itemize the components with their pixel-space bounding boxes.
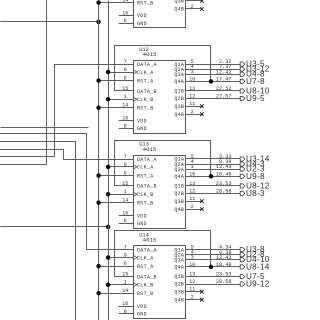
net flag U3-5 from Q1A of U12 [240,60,265,69]
svg-text:Q3B: Q3B [174,0,184,5]
no-connect X on pin 2 Q4B of U11 [200,7,204,11]
wire delay value 8.38 on Q2A of U13 [219,159,231,165]
pin 2 Q4B of U13 [174,204,201,213]
svg-text:RST_B: RST_B [137,200,154,206]
pin 1 CLK_B of U14 [109,280,154,289]
pin 15 DATA_B of U12 [115,86,157,95]
pin 16 VDD of U14 [119,301,147,310]
pin 16 VDD of U12 [119,116,147,125]
feedback wire Q4A to DATA_B of U14 [115,231,211,277]
net flag U7-8 from Q4A of U12 [240,77,265,86]
pin 7 DATA_A of U14 [124,245,157,254]
value label 4015 for U13 [143,146,157,153]
svg-text:CLK_B: CLK_B [137,283,154,289]
pin 16 VDD of U11 [119,10,147,19]
net flag U8-3 from Q2B of U13 [240,189,265,198]
wire delay value 27.57 on Q2B of U12 [216,94,232,100]
pin 1 CLK_B of U12 [109,94,154,103]
net flag U4-3 from Q2A of U13 [240,160,265,169]
svg-text:Q3B: Q3B [174,104,184,110]
svg-text:16: 16 [122,116,128,122]
svg-text:16: 16 [122,10,128,16]
svg-text:6: 6 [124,76,127,82]
svg-text:Q3B: Q3B [174,289,184,295]
wire delay value 2.32 on Q1A of U12 [219,59,231,65]
svg-text:RST_A: RST_A [137,264,154,270]
net flag U2-8 from Q2A of U14 [240,250,265,259]
svg-text:U9-8: U9-8 [246,172,265,181]
wire delay value 3.33 on Q1A of U13 [219,154,231,160]
svg-text:GND: GND [137,21,147,27]
svg-text:VDD: VDD [137,118,147,124]
net flag U8-14 from Q4A of U14 [240,262,270,271]
svg-text:CLK_A: CLK_A [137,255,154,261]
svg-text:14: 14 [122,198,128,204]
pin 13 Q1B of U13 [174,181,240,190]
svg-text:DATA_A: DATA_A [137,157,157,163]
junction RST_B of U14 on RST bus [96,291,101,296]
op-amp-style IC body U12 4015 [134,61,186,134]
feedback wire Q4A to DATA_B of U13 [115,141,211,186]
svg-text:GND: GND [137,312,147,318]
svg-text:Q3A: Q3A [174,72,184,78]
svg-text:DATA_B: DATA_B [137,89,157,95]
svg-text:8: 8 [124,309,127,315]
svg-text:16: 16 [122,301,128,307]
svg-text:GND: GND [137,126,147,132]
no-connect X on pin 11 Q3B of U12 [200,104,204,108]
svg-text:GND: GND [137,221,147,227]
svg-text:12.42: 12.42 [216,69,232,75]
svg-text:RST_B: RST_B [137,106,154,112]
pin 15 DATA_B of U14 [115,271,157,280]
wire delay value 13.43 on Q3A of U13 [216,164,232,170]
svg-text:Q4B: Q4B [174,207,184,213]
junction feedback on Q4A of U13 [209,174,214,179]
svg-text:Q2B: Q2B [174,191,184,197]
value label 4015 for U14 [143,237,157,244]
svg-text:18.48: 18.48 [216,171,232,177]
pin 13 Q1B of U14 [174,272,240,281]
svg-text:U8-14: U8-14 [246,262,270,271]
pin 14 RST_B of U12 [99,103,154,112]
wire DATA_A feeder to U12 [0,65,134,157]
net flag U9-5 from Q2B of U12 [240,94,265,103]
wire delay value 9.39 on Q2A of U14 [219,250,231,256]
wire delay value 12.42 on Q3A of U12 [216,69,232,75]
svg-text:14: 14 [122,0,128,3]
svg-text:DATA_A: DATA_A [137,247,157,253]
svg-text:CLK_B: CLK_B [137,192,154,198]
wire delay value 18.48 on Q4A of U13 [216,171,232,177]
net flag U4-10 from Q3A of U14 [240,255,270,264]
svg-text:9: 9 [124,67,127,73]
svg-text:6: 6 [124,261,127,267]
svg-text:7: 7 [124,245,127,251]
svg-text:DATA_A: DATA_A [137,62,157,68]
GND stub wire from left edge [1,127,89,129]
junction CLK_B of U12 on CLK bus [106,97,111,102]
pin 4 Q2A of U12 [174,64,240,73]
net flag U8-12 from Q1B of U13 [240,181,270,190]
net flag U8-10 from Q1B of U12 [240,87,270,96]
junction RST_A of U14 on RST bus [96,264,101,269]
reference label U13 [139,142,149,148]
pin 3 Q3A of U12 [174,69,240,78]
pin 12 Q2B of U14 [174,279,240,288]
svg-text:RST_A: RST_A [137,78,154,84]
pin 5 Q1A of U14 [174,245,240,254]
svg-text:Q3A: Q3A [174,257,184,263]
svg-text:16: 16 [122,210,128,216]
wire delay value 28.58 on Q2B of U14 [216,279,232,285]
pin 8 GND of U14 [119,309,147,318]
svg-text:CLK_A: CLK_A [137,70,154,76]
pin 11 Q3B of U13 [174,196,201,205]
wire delay value 22.52 on Q1B of U12 [216,86,232,92]
svg-text:Q1B: Q1B [174,274,184,280]
pin 16 VDD of U13 [119,210,147,219]
svg-text:4015: 4015 [143,237,157,244]
svg-text:28.58: 28.58 [216,279,232,285]
junction RST_B of U13 on RST bus [96,200,101,205]
pin 9 CLK_A of U13 [109,162,154,171]
svg-text:13: 13 [189,86,195,92]
svg-text:Q4B: Q4B [174,112,184,118]
svg-text:27.57: 27.57 [216,94,232,100]
junction RST_B of U12 on RST bus [96,105,101,110]
pin 7 DATA_A of U12 [124,59,157,68]
wire delay value 17.47 on Q4A of U12 [216,77,232,83]
pin 8 GND of U12 [119,123,147,132]
junction RST source on RST bus [96,20,101,25]
wire DATA_A feeder to U15 below [0,142,76,320]
pin 14 RST_B of U14 [99,288,154,297]
wire delay value 23.53 on Q1B of U13 [216,181,232,187]
svg-text:13.43: 13.43 [216,255,232,261]
RST net source wire from left edge [1,21,99,23]
junction CLK_A of U14 on CLK bus [106,255,111,260]
net flag U2-3 from Q3A of U13 [240,165,265,174]
wire delay value 7.37 on Q2A of U12 [219,64,231,70]
svg-text:Q1B: Q1B [174,89,184,95]
svg-text:4015: 4015 [143,51,157,58]
svg-text:9: 9 [124,252,127,258]
svg-text:22.52: 22.52 [216,86,232,92]
svg-text:Q2B: Q2B [174,282,184,288]
svg-text:23.53: 23.53 [216,181,232,187]
svg-text:14: 14 [122,288,128,294]
net flag U7-5 from Q1B of U14 [240,272,265,281]
pin 4 Q2A of U14 [174,250,240,259]
svg-text:U7-8: U7-8 [246,77,265,86]
svg-text:U9-12: U9-12 [246,280,270,289]
svg-text:Q4A: Q4A [174,174,184,180]
pin 4 Q2A of U13 [174,159,240,168]
svg-text:6: 6 [124,170,127,176]
op-amp-style IC body U11 4015 [134,0,186,28]
no-connect X on pin 11 Q3B of U13 [200,199,204,203]
wire delay value 28.58 on Q2B of U13 [216,189,232,195]
pin 8 GND of U13 [119,218,147,227]
svg-text:4015: 4015 [143,146,157,153]
svg-text:VDD: VDD [137,304,147,310]
pin 6 RST_A of U14 [99,261,154,270]
no-connect X on pin 11 Q3B of U11 [200,0,204,3]
pin 12 Q2B of U13 [174,188,240,197]
svg-text:8: 8 [124,123,127,129]
pin 10 Q4A of U12 [174,76,240,85]
value label 4015 for U12 [143,51,157,58]
svg-text:Q4A: Q4A [174,79,184,85]
junction RST_A of U13 on RST bus [96,173,101,178]
pin 6 RST_A of U13 [99,170,154,179]
svg-text:23.53: 23.53 [216,272,232,278]
svg-text:Q2B: Q2B [174,96,184,102]
svg-text:2: 2 [191,4,194,10]
junction RST_A of U12 on RST bus [96,78,101,83]
wire delay value 18.48 on Q4A of U14 [216,262,232,268]
junction CLK_B of U13 on CLK bus [106,192,111,197]
svg-text:8: 8 [124,218,127,224]
pin 7 DATA_A of U13 [124,154,157,163]
no-connect X on pin 2 Q4B of U13 [200,207,204,211]
wire DATA_A feeder to U13 [0,150,134,160]
svg-text:18.48: 18.48 [216,262,232,268]
svg-text:VDD: VDD [137,213,147,219]
pin 5 Q1A of U12 [174,59,240,68]
pin 11 Q3B of U12 [174,101,201,110]
no-connect X on pin 2 Q4B of U14 [200,298,204,302]
svg-text:DATA_B: DATA_B [137,184,157,190]
net flag U9-12 from Q2B of U14 [240,280,270,289]
svg-text:9: 9 [124,162,127,168]
pin 13 Q1B of U12 [174,86,240,95]
CLK bus vertical wire [108,1,110,320]
svg-text:CLK_A: CLK_A [137,165,154,171]
svg-text:13.43: 13.43 [216,164,232,170]
wire delay value 13.43 on Q3A of U14 [216,255,232,261]
svg-text:1: 1 [124,94,127,100]
net flag U3-14 from Q1A of U13 [240,155,270,164]
feedback wire Q4A to DATA_B of U12 [115,46,211,91]
pin 2 Q4B of U14 [174,295,201,304]
wire from top edge down far left, exiting left edge [0,0,47,165]
net flag U9-8 from Q4A of U13 [240,172,265,181]
svg-text:U9-5: U9-5 [246,94,265,103]
pin 3 Q3A of U14 [174,255,240,264]
svg-text:RST_B: RST_B [137,0,154,6]
junction CLK_A of U13 on CLK bus [106,165,111,170]
pin 5 Q1A of U13 [174,154,240,163]
svg-text:Q3B: Q3B [174,199,184,205]
svg-text:U8-3: U8-3 [246,189,265,198]
junction RST_B of U11 on RST bus [96,0,101,5]
wire delay value 4.34 on Q1A of U14 [219,245,231,251]
RST bus vertical wire [98,3,100,320]
svg-text:8: 8 [124,18,127,24]
junction feedback on Q4A of U14 [209,265,214,270]
reference label U12 [139,47,149,53]
svg-text:DATA_B: DATA_B [137,274,157,280]
pin 12 Q2B of U12 [174,94,240,103]
wire delay value 23.53 on Q1B of U14 [216,272,232,278]
net flag U3-12 from Q2A of U12 [240,65,270,74]
pin 3 Q3A of U13 [174,164,240,173]
pin 2 Q4B of U11 [174,4,201,13]
svg-text:RST_A: RST_A [137,173,154,179]
junction feedback on Q4A of U12 [209,79,214,84]
net flag U4-8 from Q3A of U12 [240,70,265,79]
pin 14 RST_B of U13 [99,198,154,207]
op-amp-style IC body U14 4015 [134,246,186,319]
pin 11 Q3B of U14 [174,287,201,296]
svg-text:Q4B: Q4B [174,7,184,13]
junction CLK source on CLK bus [106,225,111,230]
svg-text:1: 1 [124,189,127,195]
junction CLK_A of U12 on CLK bus [106,70,111,75]
pin 14 RST_B of U11 [99,0,154,6]
svg-text:Q4B: Q4B [174,297,184,303]
svg-text:RST_B: RST_B [137,291,154,297]
pin 10 Q4A of U14 [174,262,240,271]
pin 8 GND of U11 [119,18,147,27]
svg-text:7: 7 [124,154,127,160]
svg-text:14: 14 [122,103,128,109]
net flag U3-8 from Q1A of U14 [240,245,265,254]
CLK net source wire from left edge [1,226,109,228]
pin 11 Q3B of U11 [174,0,201,5]
no-connect X on pin 2 Q4B of U12 [200,112,204,116]
pin 6 RST_A of U12 [99,76,154,85]
wire DATA_A feeder to U14 [0,134,134,250]
svg-text:Q1B: Q1B [174,184,184,190]
pin 1 CLK_B of U13 [109,189,154,198]
no-connect X on pin 11 Q3B of U14 [200,290,204,294]
pin 9 CLK_A of U14 [109,252,154,261]
pin 9 CLK_A of U12 [109,67,154,76]
pin 15 DATA_B of U13 [115,181,157,190]
op-amp-style IC body U13 4015 [134,156,186,229]
svg-text:17.47: 17.47 [216,77,232,83]
junction CLK_B of U14 on CLK bus [106,283,111,288]
svg-text:Q4A: Q4A [174,265,184,271]
reference label U14 [139,232,149,238]
svg-text:VDD: VDD [137,13,147,19]
svg-text:CLK_B: CLK_B [137,97,154,103]
pin 2 Q4B of U12 [174,109,201,118]
svg-text:Q3A: Q3A [174,167,184,173]
svg-text:7: 7 [124,59,127,65]
svg-text:1: 1 [124,280,127,286]
svg-text:28.58: 28.58 [216,189,232,195]
pin 10 Q4A of U13 [174,171,240,180]
